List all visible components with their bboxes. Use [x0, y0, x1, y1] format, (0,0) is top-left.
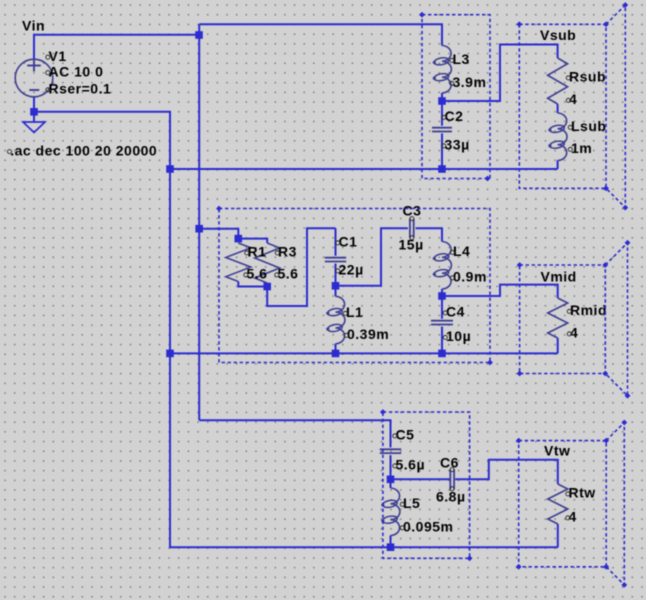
- wire C4 bottom lead: [441, 327, 443, 354]
- svg-text:Vin: Vin: [22, 18, 45, 34]
- wire C5 node to L5: [390, 482, 392, 488]
- inductor L5: [381, 488, 400, 536]
- junction mid tap: [195, 225, 203, 233]
- label L5: [400, 495, 420, 511]
- label R3: [275, 244, 297, 260]
- wire C3 right to L4: [416, 228, 442, 241]
- svg-text:R3: R3: [278, 244, 297, 260]
- svg-text:5.6: 5.6: [278, 266, 299, 282]
- svg-text:C1: C1: [339, 234, 358, 250]
- junction C5/C6/L5 node: [387, 476, 395, 484]
- svg-text:0.9m: 0.9m: [453, 269, 487, 285]
- svg-text:Vmid: Vmid: [541, 269, 577, 285]
- value 0.9m: [450, 269, 487, 285]
- wire C4 top lead: [441, 299, 443, 319]
- value 33u: [442, 137, 470, 153]
- label Rsub: [566, 69, 606, 85]
- wire C2 top lead: [441, 104, 443, 126]
- label C5: [393, 427, 415, 443]
- value 5.6 (R1): [244, 266, 268, 282]
- pin marker C6 top: [450, 468, 454, 472]
- svg-text:0.39m: 0.39m: [347, 326, 389, 342]
- wire C5 bottom lead: [390, 455, 392, 479]
- svg-text:C6: C6: [440, 455, 459, 471]
- pin marker C3 bottom: [410, 236, 414, 240]
- value 5.6 (R3): [275, 266, 299, 282]
- junction left bus/sub rail: [166, 165, 174, 173]
- inductor L1: [326, 296, 345, 344]
- wire top rail to L3: [199, 24, 442, 45]
- wire sub section bottom rail: [170, 168, 558, 170]
- junction C4/mid rail: [438, 350, 446, 358]
- wire Rsub to Lsub: [557, 104, 559, 113]
- svg-text:5.6: 5.6: [247, 266, 268, 282]
- junction L4/C4 node: [438, 292, 446, 300]
- wire mid node to Rmid: [445, 285, 558, 298]
- pin marker C3 top: [410, 217, 414, 221]
- svg-text:C3: C3: [403, 203, 422, 219]
- label Rmid: [567, 302, 607, 318]
- svg-text:Rser=0.1: Rser=0.1: [49, 81, 112, 97]
- wire Rtw to bottom rail: [557, 524, 559, 547]
- junction R3 bottom node: [263, 283, 271, 291]
- wire ground return rail (left+bottom): [34, 112, 558, 547]
- wire L3 to C2 node: [441, 93, 443, 101]
- svg-text:22µ: 22µ: [339, 262, 364, 278]
- svg-text:0.095m: 0.095m: [403, 519, 453, 535]
- junction C1/L1 node: [332, 282, 340, 290]
- svg-text:15µ: 15µ: [399, 237, 424, 253]
- wire L4 to C4 node: [441, 289, 443, 296]
- capacitor C5: [380, 449, 401, 453]
- svg-text:Vtw: Vtw: [544, 443, 570, 459]
- value 1m: [568, 140, 592, 156]
- wire C1 bottom lead: [335, 264, 337, 286]
- wire L5 to bottom rail: [390, 536, 392, 548]
- value 3.9m: [450, 74, 487, 90]
- svg-text:L4: L4: [453, 243, 470, 259]
- dashed box sub filter: [419, 12, 490, 182]
- svg-text:C4: C4: [446, 304, 465, 320]
- speaker box Vsub: [516, 2, 628, 210]
- label L3: [450, 51, 470, 67]
- label C2: [442, 108, 464, 124]
- svg-text:R1: R1: [248, 244, 267, 260]
- wire mid tap to R1 top: [199, 229, 238, 239]
- junction R1 top node: [235, 235, 243, 243]
- junction L3/C2 node: [438, 97, 446, 105]
- resistor R1: [226, 243, 251, 282]
- svg-text:5.6µ: 5.6µ: [396, 457, 426, 473]
- label R1: [245, 244, 267, 260]
- label Lsub: [568, 118, 606, 134]
- svg-text:Lsub: Lsub: [571, 118, 606, 134]
- svg-text:L5: L5: [403, 495, 420, 511]
- value AC 10 0: [46, 64, 104, 80]
- wire C6 right to Rtw: [455, 460, 558, 484]
- inductor L3: [433, 46, 452, 94]
- wire C2 bottom lead: [441, 133, 443, 169]
- capacitor C6: [450, 469, 454, 489]
- svg-text:AC 10 0: AC 10 0: [49, 64, 104, 80]
- resistor Rtw: [548, 484, 568, 524]
- value 4 (Rtw): [566, 509, 577, 525]
- value 0.095m: [400, 519, 453, 535]
- wire C1 node to L1: [335, 289, 337, 296]
- value 0.39m: [344, 326, 389, 342]
- svg-text:.ac dec 100 20 20000: .ac dec 100 20 20000: [10, 142, 157, 158]
- wire R pair to C1 top: [267, 228, 335, 306]
- wire R1/R3 top tie: [238, 239, 267, 243]
- junction L1/mid rail: [332, 350, 340, 358]
- svg-text:1m: 1m: [571, 140, 592, 156]
- wire sub node to Rsub: [445, 45, 558, 102]
- wire Vin node: V1 top to junction: [34, 35, 199, 60]
- junction L5/bottom rail: [387, 543, 395, 551]
- svg-text:L3: L3: [453, 51, 470, 67]
- ground: [23, 115, 45, 133]
- resistor R3: [255, 243, 280, 283]
- pin marker C6 bottom: [450, 487, 454, 491]
- resistor Rmid: [548, 298, 568, 338]
- value 5.6u: [393, 457, 425, 473]
- voltage source V1: [15, 59, 53, 97]
- value 10u: [443, 328, 471, 344]
- dashed box tweeter filter: [380, 409, 473, 561]
- speaker box Vmid: [517, 240, 631, 399]
- junction left bus/mid rail: [166, 350, 174, 358]
- value 4 (Rmid): [567, 325, 578, 341]
- svg-text:3.9m: 3.9m: [453, 74, 487, 90]
- wire C5 node to C6 left: [391, 478, 450, 480]
- dashed box mid filter: [216, 206, 493, 366]
- capacitor C2: [432, 128, 452, 132]
- wire Lsub to rail: [557, 161, 559, 170]
- svg-text:L1: L1: [346, 304, 363, 320]
- wire Rmid to mid rail: [557, 338, 559, 353]
- wire tweeter tap to C5: [199, 420, 390, 447]
- label L1: [343, 304, 363, 320]
- label C1: [336, 234, 358, 250]
- label Rtw: [566, 485, 596, 501]
- capacitor C3: [410, 219, 414, 238]
- wire C1 node to C3 left: [339, 228, 408, 286]
- speaker box Vtw: [516, 420, 627, 588]
- wire C1 top lead: [335, 228, 337, 256]
- svg-text:6.8µ: 6.8µ: [436, 489, 466, 505]
- label L4: [450, 243, 470, 259]
- svg-text:10µ: 10µ: [446, 328, 471, 344]
- junction V1 out: [30, 108, 38, 116]
- svg-text:Rtw: Rtw: [569, 485, 596, 501]
- value Rser=0.1: [46, 81, 112, 97]
- resistor Rsub: [548, 58, 568, 104]
- value 22u: [336, 262, 364, 278]
- svg-text:V1: V1: [49, 48, 67, 64]
- wire L1 to mid rail: [335, 344, 337, 354]
- wire V1 bottom: [33, 97, 35, 112]
- wire vertical input bus x=199: [198, 24, 200, 420]
- svg-text:C2: C2: [445, 108, 464, 124]
- label C4: [443, 304, 465, 320]
- inductor Lsub: [548, 113, 567, 161]
- svg-text:Vsub: Vsub: [540, 27, 576, 43]
- inductor L4: [433, 242, 452, 290]
- value 4 (Rsub): [566, 91, 577, 107]
- svg-text:C5: C5: [396, 427, 415, 443]
- wire R1/R3 bottom tie: [238, 282, 267, 287]
- svg-text:Rmid: Rmid: [570, 302, 607, 318]
- svg-text:Rsub: Rsub: [569, 69, 606, 85]
- spice directive .ac: [7, 142, 157, 158]
- wire mid section bottom rail: [170, 352, 558, 354]
- junction C2/sub rail: [438, 165, 446, 173]
- capacitor C4: [431, 321, 453, 325]
- label V1: [46, 48, 67, 64]
- junction Vin/top rail: [195, 31, 203, 39]
- svg-text:33µ: 33µ: [445, 137, 470, 153]
- capacitor C1: [325, 258, 346, 262]
